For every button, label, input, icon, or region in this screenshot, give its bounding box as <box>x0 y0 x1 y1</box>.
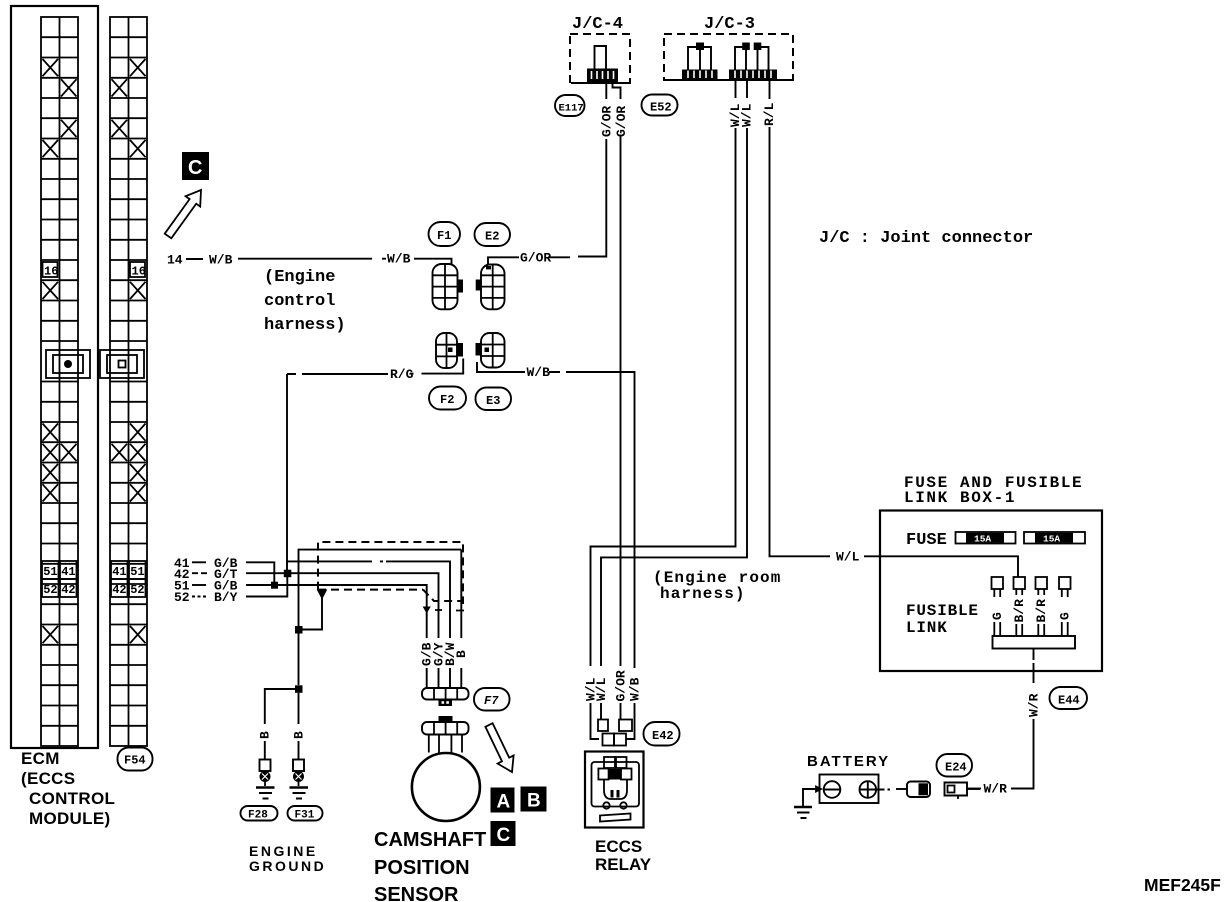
ECCS RELAY label <box>595 837 652 874</box>
svg-text:W/L: W/L <box>836 549 860 564</box>
svg-text:F31: F31 <box>295 810 315 822</box>
svg-text:B: B <box>258 731 273 739</box>
wire G/OR (J/C-4 to E2), vertical with rotated label <box>600 106 615 137</box>
camshaft position sensor body <box>412 753 480 821</box>
svg-text:BATTERY: BATTERY <box>807 753 890 770</box>
connector F7 oval label <box>474 688 510 711</box>
svg-text:W/B: W/B <box>209 253 233 268</box>
svg-text:MODULE): MODULE) <box>29 809 110 828</box>
svg-text:CONTROL: CONTROL <box>29 789 115 808</box>
svg-text:B: B <box>454 650 469 658</box>
connector E52 oval label <box>642 95 678 116</box>
connector F2 (face view) <box>436 333 463 368</box>
svg-text:J/C-3: J/C-3 <box>704 15 755 34</box>
svg-text:51: 51 <box>130 565 144 579</box>
svg-text:52: 52 <box>43 583 57 597</box>
wire stub B to sensor pin 4 <box>454 650 469 688</box>
svg-text:control: control <box>264 292 335 311</box>
svg-text:F2: F2 <box>440 393 454 407</box>
svg-text:G: G <box>990 612 1005 620</box>
svg-text:E24: E24 <box>945 761 967 775</box>
wire to ground F31 <box>291 693 306 760</box>
fuse 15A #1 <box>956 532 1016 545</box>
fusible link B/R #2 <box>1034 577 1049 636</box>
wire W/B from ECM 14 to connector F1 <box>238 259 452 265</box>
svg-text:G/OR: G/OR <box>614 106 629 137</box>
connector E24 oval label <box>937 754 973 777</box>
ECM connector strip (left, ECM side) <box>41 17 78 746</box>
svg-text:W/R: W/R <box>1026 693 1041 717</box>
svg-text:52: 52 <box>174 590 190 605</box>
svg-text:RELAY: RELAY <box>595 855 652 874</box>
joint connector J/C-3 <box>664 15 793 80</box>
junction 41/51 <box>271 582 278 589</box>
wire W/B from E3 to ECCS relay <box>477 362 635 668</box>
svg-text:15A: 15A <box>1043 534 1060 545</box>
wire 42 G/T to sensor (with 52 join) <box>246 573 439 638</box>
camshaft position sensor connector F7 (harness half) <box>422 688 469 706</box>
wire stub G/B to sensor pin 1 <box>420 642 435 688</box>
svg-text:FUSE: FUSE <box>906 531 947 550</box>
ECM terminal 42 label <box>174 567 238 582</box>
joint connector J/C-4 <box>570 15 630 83</box>
svg-text:16: 16 <box>44 265 58 279</box>
wire 51 G/B to sensor <box>246 585 427 638</box>
svg-text:E2: E2 <box>485 230 499 244</box>
svg-text:F7: F7 <box>484 694 499 708</box>
CAMSHAFT POSITION SENSOR label <box>374 829 486 902</box>
view label C (black box) <box>182 152 209 180</box>
svg-text:41: 41 <box>61 565 75 579</box>
connector E2 (face view) <box>476 265 505 310</box>
fuse 15A #2 <box>1024 532 1085 545</box>
connector E44 oval label <box>1050 687 1088 709</box>
hollow arrow pointing to A/B/C <box>485 723 513 772</box>
FUSE AND FUSIBLE LINK BOX-1 title <box>904 474 1083 507</box>
svg-text:R/G: R/G <box>390 367 414 382</box>
svg-text:W/L: W/L <box>594 677 609 701</box>
svg-text:MEF245F: MEF245F <box>1144 875 1221 895</box>
svg-text:B/R: B/R <box>1012 599 1027 623</box>
fusible link G #1 <box>990 577 1005 636</box>
ground terminal (F31): connector and ground symbol <box>290 760 309 799</box>
wire to sensor B/W (from R/G elbow) <box>287 561 450 638</box>
svg-text:15A: 15A <box>974 534 991 545</box>
svg-text:(ECCS: (ECCS <box>21 769 75 788</box>
svg-text:G/OR: G/OR <box>600 106 615 137</box>
connector F1 oval label <box>429 222 461 246</box>
svg-text:W/L: W/L <box>740 103 755 127</box>
wire W/L #2 from J/C-3 to ECCS relay <box>601 80 755 666</box>
ECM terminal 41 label <box>174 556 238 571</box>
svg-text:SENSOR: SENSOR <box>374 884 459 902</box>
ECM right strip guide-pin box with open square <box>100 350 144 378</box>
view label B (black box) <box>521 787 547 812</box>
svg-text:ENGINE: ENGINE <box>249 843 318 859</box>
svg-text:ECM: ECM <box>21 749 60 768</box>
svg-text:C: C <box>497 825 511 846</box>
svg-text:LINK: LINK <box>906 619 948 637</box>
FUSIBLE LINK label <box>906 602 979 637</box>
svg-text:42: 42 <box>112 583 126 597</box>
wire stub G/Y to sensor pin 2 <box>431 642 446 688</box>
connector F1 (face view) <box>433 264 464 309</box>
fuse and fusible link box outline <box>880 511 1102 672</box>
ground terminal (F28): connector and ground symbol <box>256 760 275 799</box>
ECM terminal 51 label <box>174 578 238 593</box>
dashed harness boundary around sensor wires <box>318 542 464 614</box>
junction engine ground split <box>295 685 303 693</box>
wire stub B/W to sensor pin 3 <box>443 642 458 688</box>
svg-text:E42: E42 <box>652 729 674 743</box>
fusible link G #2 <box>1058 577 1073 636</box>
svg-text:41: 41 <box>112 565 126 579</box>
svg-text:W/B: W/B <box>627 677 642 701</box>
wire G/OR (J/C-4 to ECCS relay) <box>613 83 630 666</box>
connector F2 oval label <box>429 387 466 410</box>
svg-text:E52: E52 <box>650 101 672 115</box>
node: ECM terminal 14 label <box>167 253 233 268</box>
battery cable connector <box>896 782 930 798</box>
fusible link bus bar <box>993 636 1076 649</box>
ECM module outline box <box>11 6 98 748</box>
svg-text:B/R: B/R <box>1034 599 1049 623</box>
view label C2 (black box) <box>491 821 516 846</box>
connector E117 oval label <box>555 95 585 116</box>
wire W/R from fusible link bar to battery <box>968 649 1041 797</box>
svg-text:LINK BOX-1: LINK BOX-1 <box>904 489 1016 507</box>
connector E3 oval label <box>476 388 512 411</box>
svg-text:F54: F54 <box>124 754 146 768</box>
view label A (black box) <box>491 788 515 813</box>
svg-text:(Engine: (Engine <box>264 268 335 287</box>
svg-text:E44: E44 <box>1058 694 1080 708</box>
svg-text:E3: E3 <box>486 394 500 408</box>
svg-text:51: 51 <box>43 565 57 579</box>
svg-text:W/B: W/B <box>527 365 551 380</box>
wire R/L from J/C-3 to fuse box (becomes W/L) <box>762 80 1018 577</box>
svg-text:J/C : Joint connector: J/C : Joint connector <box>819 229 1033 248</box>
ECM terminal 52 label <box>174 590 238 605</box>
wire sensor B (ground wire) horizontal run <box>299 550 462 638</box>
(Engine control harness) note <box>264 268 346 335</box>
(Engine room harness) note <box>653 569 781 603</box>
svg-text:B: B <box>527 791 541 812</box>
fusible link B/R #1 <box>1012 577 1027 636</box>
connector F31 oval label <box>288 806 323 822</box>
svg-text:14: 14 <box>167 253 183 268</box>
svg-text:G: G <box>1058 612 1073 620</box>
svg-text:A: A <box>497 792 511 813</box>
svg-text:C: C <box>188 157 202 179</box>
ground wire B net to engine grounds <box>298 634 300 686</box>
ECM left strip guide-pin box with black dot <box>46 350 90 378</box>
wire labels at ECCS relay <box>583 670 642 701</box>
svg-text:16: 16 <box>132 265 146 279</box>
svg-text:CAMSHAFT: CAMSHAFT <box>374 829 486 851</box>
ECCS relay <box>585 752 644 828</box>
svg-text:GROUND: GROUND <box>249 858 326 874</box>
connector E42 (relay connector) <box>598 720 632 746</box>
wire R/G from sensor net to F2 <box>287 359 463 375</box>
svg-text:B: B <box>291 731 306 739</box>
svg-text:G/OR: G/OR <box>613 670 628 701</box>
svg-text:FUSIBLE: FUSIBLE <box>906 602 979 620</box>
battery ground <box>794 787 821 819</box>
wire G/OR from E2 to J/C-4 <box>488 83 606 265</box>
svg-text:harness): harness) <box>264 316 346 335</box>
connector E2 oval label <box>475 223 511 246</box>
ENGINE GROUND label <box>249 843 326 874</box>
svg-text:B/Y: B/Y <box>214 590 238 605</box>
ECM label text <box>21 749 115 828</box>
svg-text:52: 52 <box>130 583 144 597</box>
junction 42/52/R-G <box>284 570 292 578</box>
connector E42 oval label <box>644 722 680 746</box>
connector E24 symbol <box>945 783 981 800</box>
wire to ground F28 <box>258 689 295 760</box>
hollow arrow pointing to C <box>165 190 201 238</box>
svg-text:F1: F1 <box>437 229 451 243</box>
connector F54 oval label <box>118 748 153 771</box>
svg-text:ECCS: ECCS <box>595 837 642 856</box>
svg-text:harness): harness) <box>660 585 746 603</box>
wire 52 B/Y (joins 42) <box>246 573 287 596</box>
wire W/L #1 from J/C-3 to ECCS relay <box>591 80 744 666</box>
svg-text:W/B: W/B <box>387 252 411 267</box>
svg-text:42: 42 <box>61 583 75 597</box>
harness branch stub with triangle into dashed boundary <box>302 590 327 630</box>
wire R/G vertical from F2 joining 42/52 node <box>286 374 288 573</box>
ECM connector strip (right, harness side F54) <box>110 17 147 746</box>
wire stubs into relay connector E42 <box>591 703 635 739</box>
svg-text:J/C-4: J/C-4 <box>572 15 623 34</box>
battery <box>820 775 891 804</box>
connector F28 oval label <box>241 806 278 822</box>
wire 41 G/B (joins 51) <box>246 562 274 585</box>
svg-text:E117: E117 <box>559 103 584 115</box>
svg-text:G/OR: G/OR <box>520 251 551 266</box>
svg-text:R/L: R/L <box>762 102 777 126</box>
camshaft position sensor connector (sensor half) <box>422 716 469 753</box>
svg-text:F28: F28 <box>248 810 268 822</box>
connector E3 (face view) <box>476 333 505 368</box>
svg-text:W/R: W/R <box>984 782 1008 797</box>
junction ground wire branch <box>295 626 303 634</box>
svg-text:POSITION: POSITION <box>374 857 470 879</box>
